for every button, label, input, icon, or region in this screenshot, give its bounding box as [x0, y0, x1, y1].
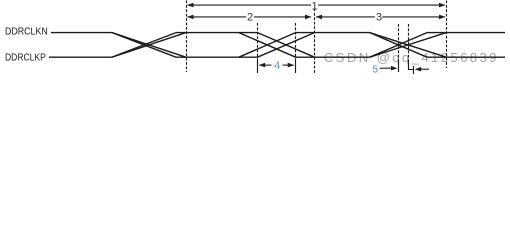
node dim4 left boundary (x=257.4) [257, 23, 259, 60]
svg-text:1: 1 [312, 0, 318, 12]
dimension 5 (crossing point variation) [380, 68, 429, 69]
wire bottom rail between T1 and T2 [176, 56, 258, 58]
wire DDRCLKN high rail [51, 32, 112, 34]
dimension 2 (high pulse width) [188, 16, 311, 18]
node dim5 left boundary (x=398.4) [398, 24, 400, 62]
svg-text:DDRCLKP: DDRCLKP [5, 52, 46, 64]
wire dim5 foot stub [409, 69, 414, 71]
wire bottom rail between T2 and T3 [296, 56, 370, 58]
wire T1 rising edge early [112, 33, 176, 58]
wire top rail between T2 and T3 [296, 32, 370, 34]
wire T3 falling edge late [370, 33, 447, 58]
wire T1 falling edge early [112, 33, 176, 58]
wire T2 rising edge early [239, 33, 296, 58]
svg-text:5: 5 [372, 64, 378, 75]
node V2 dashed extension line middle (x=314.5) [314, 9, 316, 75]
dimension 1 (clock period) [188, 4, 445, 6]
svg-text:3: 3 [376, 12, 382, 24]
wire top rail right end [427, 32, 505, 34]
svg-text:2: 2 [247, 12, 253, 24]
node V3 dashed extension line right (x=446.3) [446, 1, 448, 69]
wire T3 rising edge late [370, 33, 447, 58]
wire bottom rail right end [427, 56, 505, 58]
node dim4 right boundary (x=295.6) [295, 23, 297, 60]
wire T3 rising edge early [370, 33, 427, 58]
node dim5 outer tick (x=413.2) [413, 66, 415, 74]
wire T1 falling edge late [112, 33, 186, 58]
wire T2 rising edge late [258, 33, 315, 58]
svg-text:4: 4 [274, 60, 280, 72]
svg-text:DDRCLKN: DDRCLKN [5, 26, 48, 38]
wire DDRCLKP low rail [49, 56, 112, 58]
dimension 4 (crossing window) [259, 64, 293, 66]
wire top rail between T1 and T2 [176, 32, 258, 34]
wire T3 falling edge early [370, 33, 427, 58]
node dim5 right boundary (x=408.9) [408, 24, 410, 62]
wire T2 falling edge late [258, 33, 315, 58]
wire T1 rising edge late [112, 33, 186, 58]
wire T2 falling edge early [239, 33, 296, 58]
dimension 3 (low pulse width) [316, 16, 445, 18]
node V1 dashed extension line left (x=186) [186, 1, 188, 73]
